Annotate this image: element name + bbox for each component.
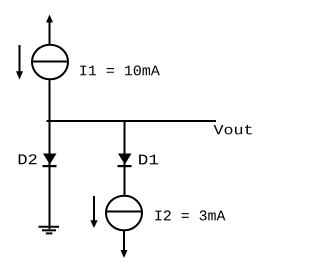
wire: top lead of I1 with up arrowhead (46, 15, 53, 46)
node Vout label (214, 125, 252, 134)
label D1 (139, 155, 158, 165)
current direction arrow for I2 (90, 196, 97, 228)
label D2 (19, 154, 37, 164)
wire: node to D2 and down to ground (49, 121, 51, 229)
wire: I1 bottom lead to node (49, 79, 51, 123)
label I1 = 10mA (80, 65, 160, 75)
wire: node to D1 and down to I2 (124, 121, 126, 197)
current source I2 (106, 196, 142, 231)
diode D2 (43, 154, 57, 168)
wire: horizontal bus from node to Vout (47, 120, 217, 122)
label I2 = 3mA (155, 210, 225, 220)
wire: bottom lead of I2 with down arrowhead (121, 230, 128, 259)
diode D1 (118, 154, 132, 168)
current direction arrow for I1 (16, 45, 23, 80)
ground (39, 227, 60, 234)
current source I1 (32, 45, 68, 80)
